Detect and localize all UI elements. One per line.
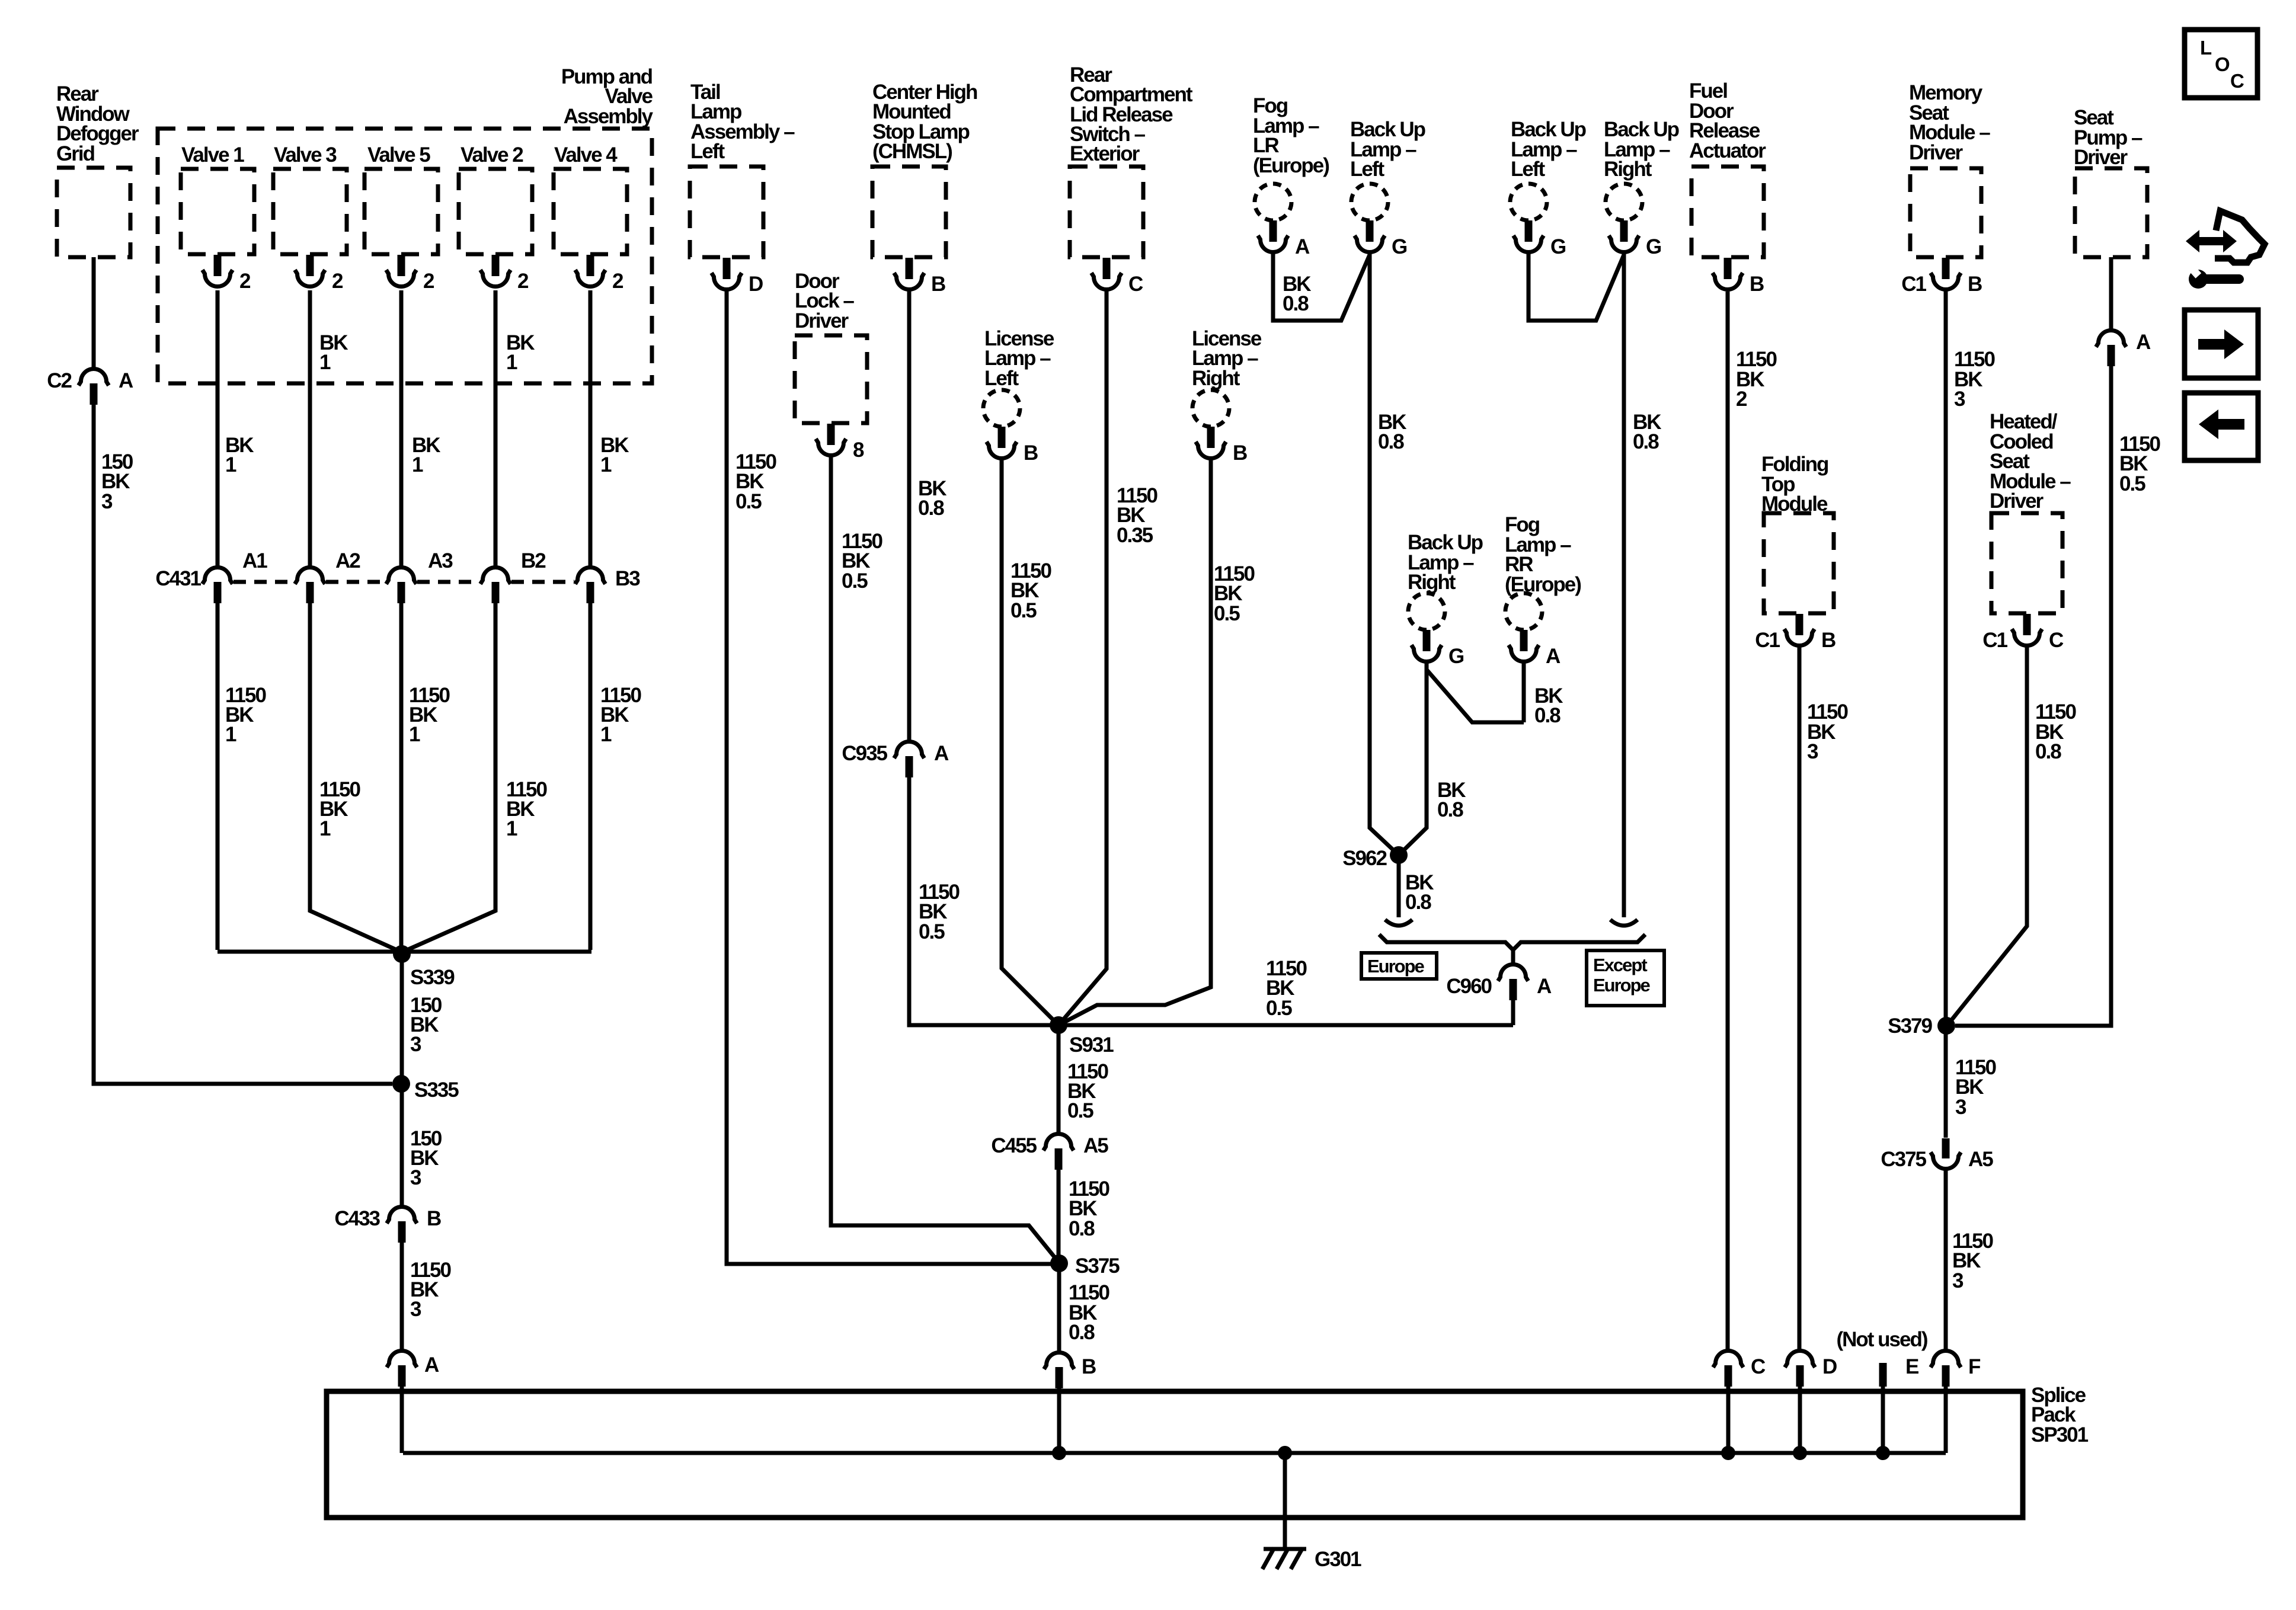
svg-text:C1: C1 — [1755, 629, 1780, 652]
svg-text:Europe: Europe — [1593, 975, 1651, 996]
europe option hop left — [1385, 920, 1412, 926]
svg-text:C935: C935 — [842, 742, 887, 765]
wire valve4 to C431 — [589, 290, 593, 566]
valve 4 box — [554, 169, 627, 254]
wire 150 BK C2 to S335 — [94, 399, 392, 1084]
svg-text:S375: S375 — [1075, 1254, 1120, 1278]
svg-text:E: E — [1905, 1355, 1918, 1378]
pump and valve assembly outer box — [158, 129, 652, 383]
svg-text:(CHMSL): (CHMSL) — [872, 140, 952, 163]
svg-text:SP301: SP301 — [2031, 1423, 2089, 1446]
connector SP301 terminal F — [1931, 1351, 1961, 1368]
svg-text:1: 1 — [225, 453, 236, 476]
valve 5 box — [364, 169, 438, 254]
rear compartment lid release switch box — [1070, 167, 1143, 257]
svg-text:Exterior: Exterior — [1070, 142, 1140, 165]
svg-text:2: 2 — [332, 270, 343, 293]
door lock pin 8 — [827, 424, 835, 445]
svg-text:Valve 5: Valve 5 — [367, 143, 430, 167]
svg-text:Driver: Driver — [1909, 141, 1964, 164]
wire A3 down to S339 — [399, 597, 404, 954]
splice S335 — [392, 1075, 410, 1093]
back up lamp left pin G — [1366, 220, 1374, 242]
splice S375 — [1050, 1254, 1068, 1272]
svg-text:1: 1 — [319, 817, 331, 840]
valve 1 box — [181, 169, 254, 254]
wire license left to S931 — [1002, 459, 1059, 1025]
connector C375 pin A5 — [1942, 1138, 1950, 1158]
connector C431 terminal B3 — [575, 568, 606, 584]
svg-text:0.8: 0.8 — [1633, 430, 1659, 453]
license lamp left bulb — [983, 390, 1020, 427]
license lamp right bulb — [1192, 390, 1229, 427]
wire S335 to C433 — [400, 1084, 404, 1205]
svg-text:B: B — [931, 273, 945, 296]
body repair icon: double arrow, panel outline, wrench — [2186, 230, 2237, 252]
svg-text:B: B — [1024, 441, 1038, 465]
valve 3 box — [273, 169, 347, 254]
wire D into splice pack — [1798, 1381, 1802, 1453]
Except Europe option box — [1587, 950, 1664, 1006]
svg-text:C1: C1 — [1982, 629, 2007, 652]
svg-text:0.8: 0.8 — [1283, 292, 1309, 315]
svg-text:1: 1 — [319, 351, 331, 374]
svg-text:B: B — [1750, 273, 1764, 296]
connector C431 terminal A2 — [295, 568, 325, 584]
svg-text:2: 2 — [612, 270, 623, 293]
wire bus to ground — [1283, 1453, 1287, 1548]
fog lamp LR pin A — [1269, 220, 1277, 242]
wire S379 to C375 — [1944, 1026, 1948, 1138]
ground G301 — [1264, 1547, 1306, 1551]
wire fog LR to backup left — [1273, 252, 1370, 321]
back up lamp right inner pin G — [1423, 630, 1431, 651]
svg-text:C433: C433 — [334, 1207, 380, 1230]
svg-text:0.5: 0.5 — [919, 920, 945, 943]
svg-text:A: A — [424, 1353, 439, 1377]
wire CHMSL to C935 — [907, 290, 912, 740]
svg-text:B: B — [427, 1207, 441, 1230]
wire backup left 2 to backup right — [1528, 252, 1624, 321]
svg-text:0.5: 0.5 — [2119, 472, 2145, 495]
svg-text:Right: Right — [1192, 367, 1240, 390]
heated cooled seat pin C connector C1 — [2023, 614, 2031, 635]
svg-text:A5: A5 — [1968, 1148, 1993, 1171]
svg-text:A: A — [2136, 331, 2151, 354]
europe option hop right — [1610, 920, 1638, 926]
svg-text:B: B — [1968, 273, 1982, 296]
svg-text:Actuator: Actuator — [1689, 139, 1766, 162]
svg-text:Driver: Driver — [2074, 146, 2128, 169]
wire A1 down — [216, 597, 220, 950]
junction G301 on bus — [1278, 1446, 1292, 1460]
wire door lock to S375 — [831, 456, 1059, 1263]
svg-text:A2: A2 — [335, 549, 360, 572]
valve 2 pin 2 — [492, 255, 500, 276]
license lamp right pin B — [1207, 427, 1215, 448]
svg-text:0.5: 0.5 — [1067, 1099, 1093, 1122]
wire defogger to C2 — [92, 257, 96, 367]
svg-text:2: 2 — [423, 270, 434, 293]
folding top module box — [1764, 513, 1834, 613]
wire brace to C960 — [1511, 950, 1515, 964]
svg-text:0.5: 0.5 — [1266, 997, 1292, 1020]
wire E into splice pack — [1881, 1387, 1885, 1453]
wire C375 to F — [1944, 1169, 1948, 1349]
connector SP301 terminal C — [1713, 1351, 1744, 1368]
svg-text:C: C — [1128, 273, 1143, 296]
connector C433 pin B — [387, 1207, 417, 1224]
wire A2 down diagonal to S339 — [310, 597, 402, 952]
svg-text:A5: A5 — [1083, 1134, 1108, 1157]
svg-text:(Not used): (Not used) — [1836, 1328, 1927, 1351]
svg-text:1: 1 — [412, 453, 423, 476]
wire S931 bus to C960 — [1059, 1023, 1513, 1028]
back up lamp left 2 pin G — [1525, 220, 1533, 242]
svg-text:C: C — [2230, 70, 2244, 92]
wire valve5 to C431 — [399, 290, 404, 566]
svg-text:A: A — [934, 742, 949, 765]
wire heated cooled to S379 — [1947, 646, 2027, 1026]
svg-text:0.5: 0.5 — [842, 569, 868, 593]
svg-text:Right: Right — [1604, 158, 1652, 181]
svg-text:3: 3 — [1807, 740, 1818, 763]
C431 dashed connector line — [234, 580, 294, 584]
back up lamp right inner bulb — [1408, 593, 1445, 630]
folding top module pin B connector C1 — [1796, 614, 1803, 635]
svg-text:A1: A1 — [242, 549, 267, 572]
svg-text:C: C — [1751, 1355, 1766, 1378]
wire license right to S931 — [1059, 459, 1211, 1025]
svg-text:0.8: 0.8 — [918, 497, 944, 520]
wire F into splice pack — [1944, 1381, 1948, 1453]
svg-text:8: 8 — [853, 438, 864, 462]
svg-text:2: 2 — [239, 270, 251, 293]
svg-text:C375: C375 — [1881, 1148, 1926, 1171]
svg-text:G: G — [1448, 645, 1464, 668]
rear compartment switch pin C — [1103, 258, 1111, 279]
svg-text:Left: Left — [690, 140, 725, 163]
rear window defogger grid box — [57, 168, 130, 257]
svg-text:1: 1 — [409, 723, 420, 746]
svg-text:C431: C431 — [155, 567, 201, 590]
svg-text:S962: S962 — [1342, 847, 1387, 870]
connector C935 pin A — [894, 742, 925, 758]
valve 4 pin 2 — [587, 255, 594, 276]
wire valve2 to C431 — [494, 290, 498, 566]
connector SP301 terminal B — [1044, 1353, 1075, 1369]
wire S375 to B — [1057, 1263, 1061, 1351]
CHMSL box — [872, 167, 946, 257]
svg-text:3: 3 — [101, 490, 113, 513]
svg-text:Assembly: Assembly — [564, 105, 654, 128]
svg-text:L: L — [2200, 37, 2212, 59]
right arrow continuation box — [2185, 310, 2258, 378]
svg-text:S931: S931 — [1069, 1033, 1114, 1057]
connector SP301 terminal E pin (not used) — [1879, 1363, 1887, 1387]
splice S339 — [393, 945, 411, 963]
license lamp left pin B — [998, 427, 1006, 448]
svg-text:O: O — [2215, 53, 2230, 75]
valve 5 pin 2 — [398, 255, 405, 276]
back up lamp left bulb 2 — [1510, 184, 1547, 220]
wire C960 to bus — [1511, 994, 1515, 1025]
wire S931 to C455 — [1057, 1025, 1061, 1132]
junction C on bus — [1721, 1446, 1735, 1460]
svg-text:3: 3 — [410, 1166, 421, 1189]
splice S931 — [1050, 1016, 1067, 1034]
svg-text:0.8: 0.8 — [1437, 798, 1463, 821]
svg-text:Valve 3: Valve 3 — [274, 143, 337, 167]
svg-text:3: 3 — [1955, 1096, 1966, 1119]
svg-text:Driver: Driver — [1990, 489, 2044, 513]
svg-text:3: 3 — [410, 1033, 421, 1056]
wire memory seat to S379 — [1944, 290, 1948, 1026]
tail lamp assembly left box — [690, 167, 763, 257]
svg-text:A3: A3 — [428, 549, 453, 572]
connector C455 pin A5 — [1044, 1134, 1074, 1151]
Europe option box — [1361, 953, 1437, 979]
svg-text:0.8: 0.8 — [2035, 740, 2061, 763]
valve 3 pin 2 — [306, 255, 314, 276]
svg-text:B: B — [1821, 629, 1835, 652]
svg-text:0.5: 0.5 — [1011, 599, 1037, 622]
svg-text:C455: C455 — [991, 1134, 1037, 1157]
svg-text:Valve 1: Valve 1 — [181, 143, 244, 167]
svg-text:Except: Except — [1593, 955, 1647, 975]
svg-text:A: A — [1295, 235, 1310, 258]
connector C960 pin A — [1498, 965, 1528, 981]
door lock driver box — [795, 335, 867, 423]
wire folding top to D — [1798, 646, 1802, 1349]
connector SP301 terminal D — [1785, 1351, 1815, 1368]
fog lamp RR bulb — [1505, 593, 1542, 630]
svg-text:2: 2 — [1736, 388, 1747, 411]
splice pack bus wire — [403, 1451, 1946, 1455]
svg-text:Left: Left — [1350, 158, 1385, 181]
svg-text:D: D — [1822, 1355, 1837, 1378]
memory seat module box — [1910, 168, 1981, 257]
wire C935 to S931 — [909, 772, 1059, 1025]
wire tail lamp to S375 — [727, 290, 1059, 1264]
back up lamp right pin G — [1620, 220, 1628, 242]
svg-text:0.8: 0.8 — [1534, 704, 1560, 727]
svg-text:Right: Right — [1408, 571, 1456, 594]
svg-text:A: A — [119, 369, 133, 392]
svg-text:F: F — [1968, 1355, 1981, 1378]
svg-text:1: 1 — [600, 453, 612, 476]
back up lamp right bulb — [1606, 184, 1642, 220]
svg-text:3: 3 — [1952, 1269, 1964, 1292]
wire fuel door to C — [1726, 292, 1730, 1349]
svg-text:0.8: 0.8 — [1069, 1217, 1095, 1240]
connector SP301 terminal A — [387, 1351, 417, 1368]
svg-text:Driver: Driver — [795, 309, 849, 332]
svg-text:Valve 4: Valve 4 — [554, 143, 618, 167]
back up lamp left bulb — [1351, 184, 1388, 220]
svg-text:B3: B3 — [615, 567, 640, 590]
valve 2 box — [459, 169, 532, 254]
connector C431 terminal A1 — [203, 568, 233, 584]
svg-text:C2: C2 — [47, 369, 72, 392]
option brace — [1379, 934, 1645, 950]
svg-text:0.8: 0.8 — [1378, 430, 1404, 453]
svg-text:0.8: 0.8 — [1069, 1321, 1095, 1344]
wire backup left to S962 — [1370, 252, 1399, 855]
fuel door actuator pin B — [1724, 258, 1732, 279]
svg-text:G301: G301 — [1315, 1548, 1361, 1571]
connector C2 pin A — [79, 369, 109, 385]
svg-text:S339: S339 — [410, 966, 455, 989]
wire seat pump down — [2109, 257, 2113, 330]
wire B into splice pack — [1057, 1382, 1061, 1453]
tail lamp pin D — [723, 258, 731, 279]
wire fog RR down — [1522, 662, 1526, 722]
heated cooled seat module box — [1991, 513, 2062, 613]
svg-text:C: C — [2049, 629, 2064, 652]
svg-text:C1: C1 — [1901, 273, 1926, 296]
svg-text:3: 3 — [410, 1298, 421, 1321]
fog lamp LR bulb — [1255, 184, 1291, 220]
svg-text:0.5: 0.5 — [1214, 602, 1240, 625]
junction E on bus — [1876, 1446, 1890, 1460]
svg-text:Europe: Europe — [1367, 956, 1425, 977]
splice S379 — [1937, 1017, 1955, 1035]
splice S962 — [1390, 846, 1408, 864]
wire rear compartment to S931 — [1059, 290, 1107, 1025]
wire valve1 to C431 — [216, 290, 220, 566]
junction D on bus — [1793, 1446, 1807, 1460]
wire backup right inner to S962 — [1399, 662, 1427, 855]
valve 1 pin 2 — [214, 255, 222, 276]
wire A into splice pack — [400, 1381, 404, 1453]
wire C455 to S375 — [1057, 1164, 1061, 1263]
junction B on bus — [1052, 1446, 1066, 1460]
wire branch to fog RR — [1427, 670, 1524, 722]
svg-text:Valve 2: Valve 2 — [461, 143, 523, 167]
svg-text:D: D — [749, 273, 763, 296]
svg-text:(Europe): (Europe) — [1253, 154, 1329, 177]
svg-text:C960: C960 — [1446, 975, 1492, 998]
svg-text:G: G — [1550, 235, 1566, 258]
wire valve3 to C431 — [308, 290, 312, 566]
svg-text:G: G — [1646, 235, 1661, 258]
svg-text:0.8: 0.8 — [1405, 891, 1431, 914]
svg-text:Left: Left — [984, 367, 1019, 390]
svg-text:2: 2 — [517, 270, 529, 293]
svg-text:B: B — [1082, 1355, 1096, 1378]
svg-text:A: A — [1537, 975, 1552, 998]
svg-text:B: B — [1233, 441, 1247, 465]
svg-text:Left: Left — [1511, 158, 1546, 181]
svg-text:0.35: 0.35 — [1117, 524, 1153, 547]
wire seat pump to S379 — [1955, 360, 2111, 1026]
fuel door release actuator box — [1691, 167, 1764, 257]
splice pack SP301 box — [327, 1391, 2023, 1518]
svg-text:1: 1 — [600, 723, 612, 746]
connector C431 terminal A3 — [386, 568, 417, 584]
wire S962 down — [1397, 855, 1401, 917]
wire C433 to SP301 A — [400, 1237, 404, 1349]
wire B3 down — [589, 597, 593, 950]
svg-text:Grid: Grid — [56, 142, 95, 165]
wire B2 down diagonal to S339 — [402, 597, 495, 952]
memory seat module pin B connector C1 — [1942, 258, 1950, 279]
svg-text:G: G — [1392, 235, 1407, 258]
svg-text:A: A — [1546, 645, 1560, 668]
connector seat pump inline pin A — [2096, 331, 2126, 347]
svg-text:0.5: 0.5 — [736, 490, 762, 513]
connector C431 terminal B2 — [481, 568, 511, 584]
left arrow continuation box — [2185, 393, 2258, 460]
wire S339 to S335 — [400, 954, 404, 1084]
wire backup right down — [1622, 252, 1626, 917]
svg-text:S335: S335 — [414, 1078, 459, 1102]
LOC reference box — [2185, 30, 2257, 98]
svg-text:S379: S379 — [1888, 1014, 1932, 1038]
seat pump driver box — [2075, 168, 2147, 257]
wire C into splice pack — [1726, 1381, 1731, 1453]
svg-text:1: 1 — [506, 817, 517, 840]
CHMSL pin B — [906, 258, 913, 279]
svg-text:1: 1 — [506, 351, 517, 374]
wire horizontal into S339 — [218, 950, 591, 954]
svg-text:3: 3 — [1954, 388, 1965, 411]
fog lamp RR pin A — [1520, 630, 1528, 651]
svg-text:1: 1 — [225, 723, 236, 746]
svg-text:B2: B2 — [521, 549, 546, 572]
